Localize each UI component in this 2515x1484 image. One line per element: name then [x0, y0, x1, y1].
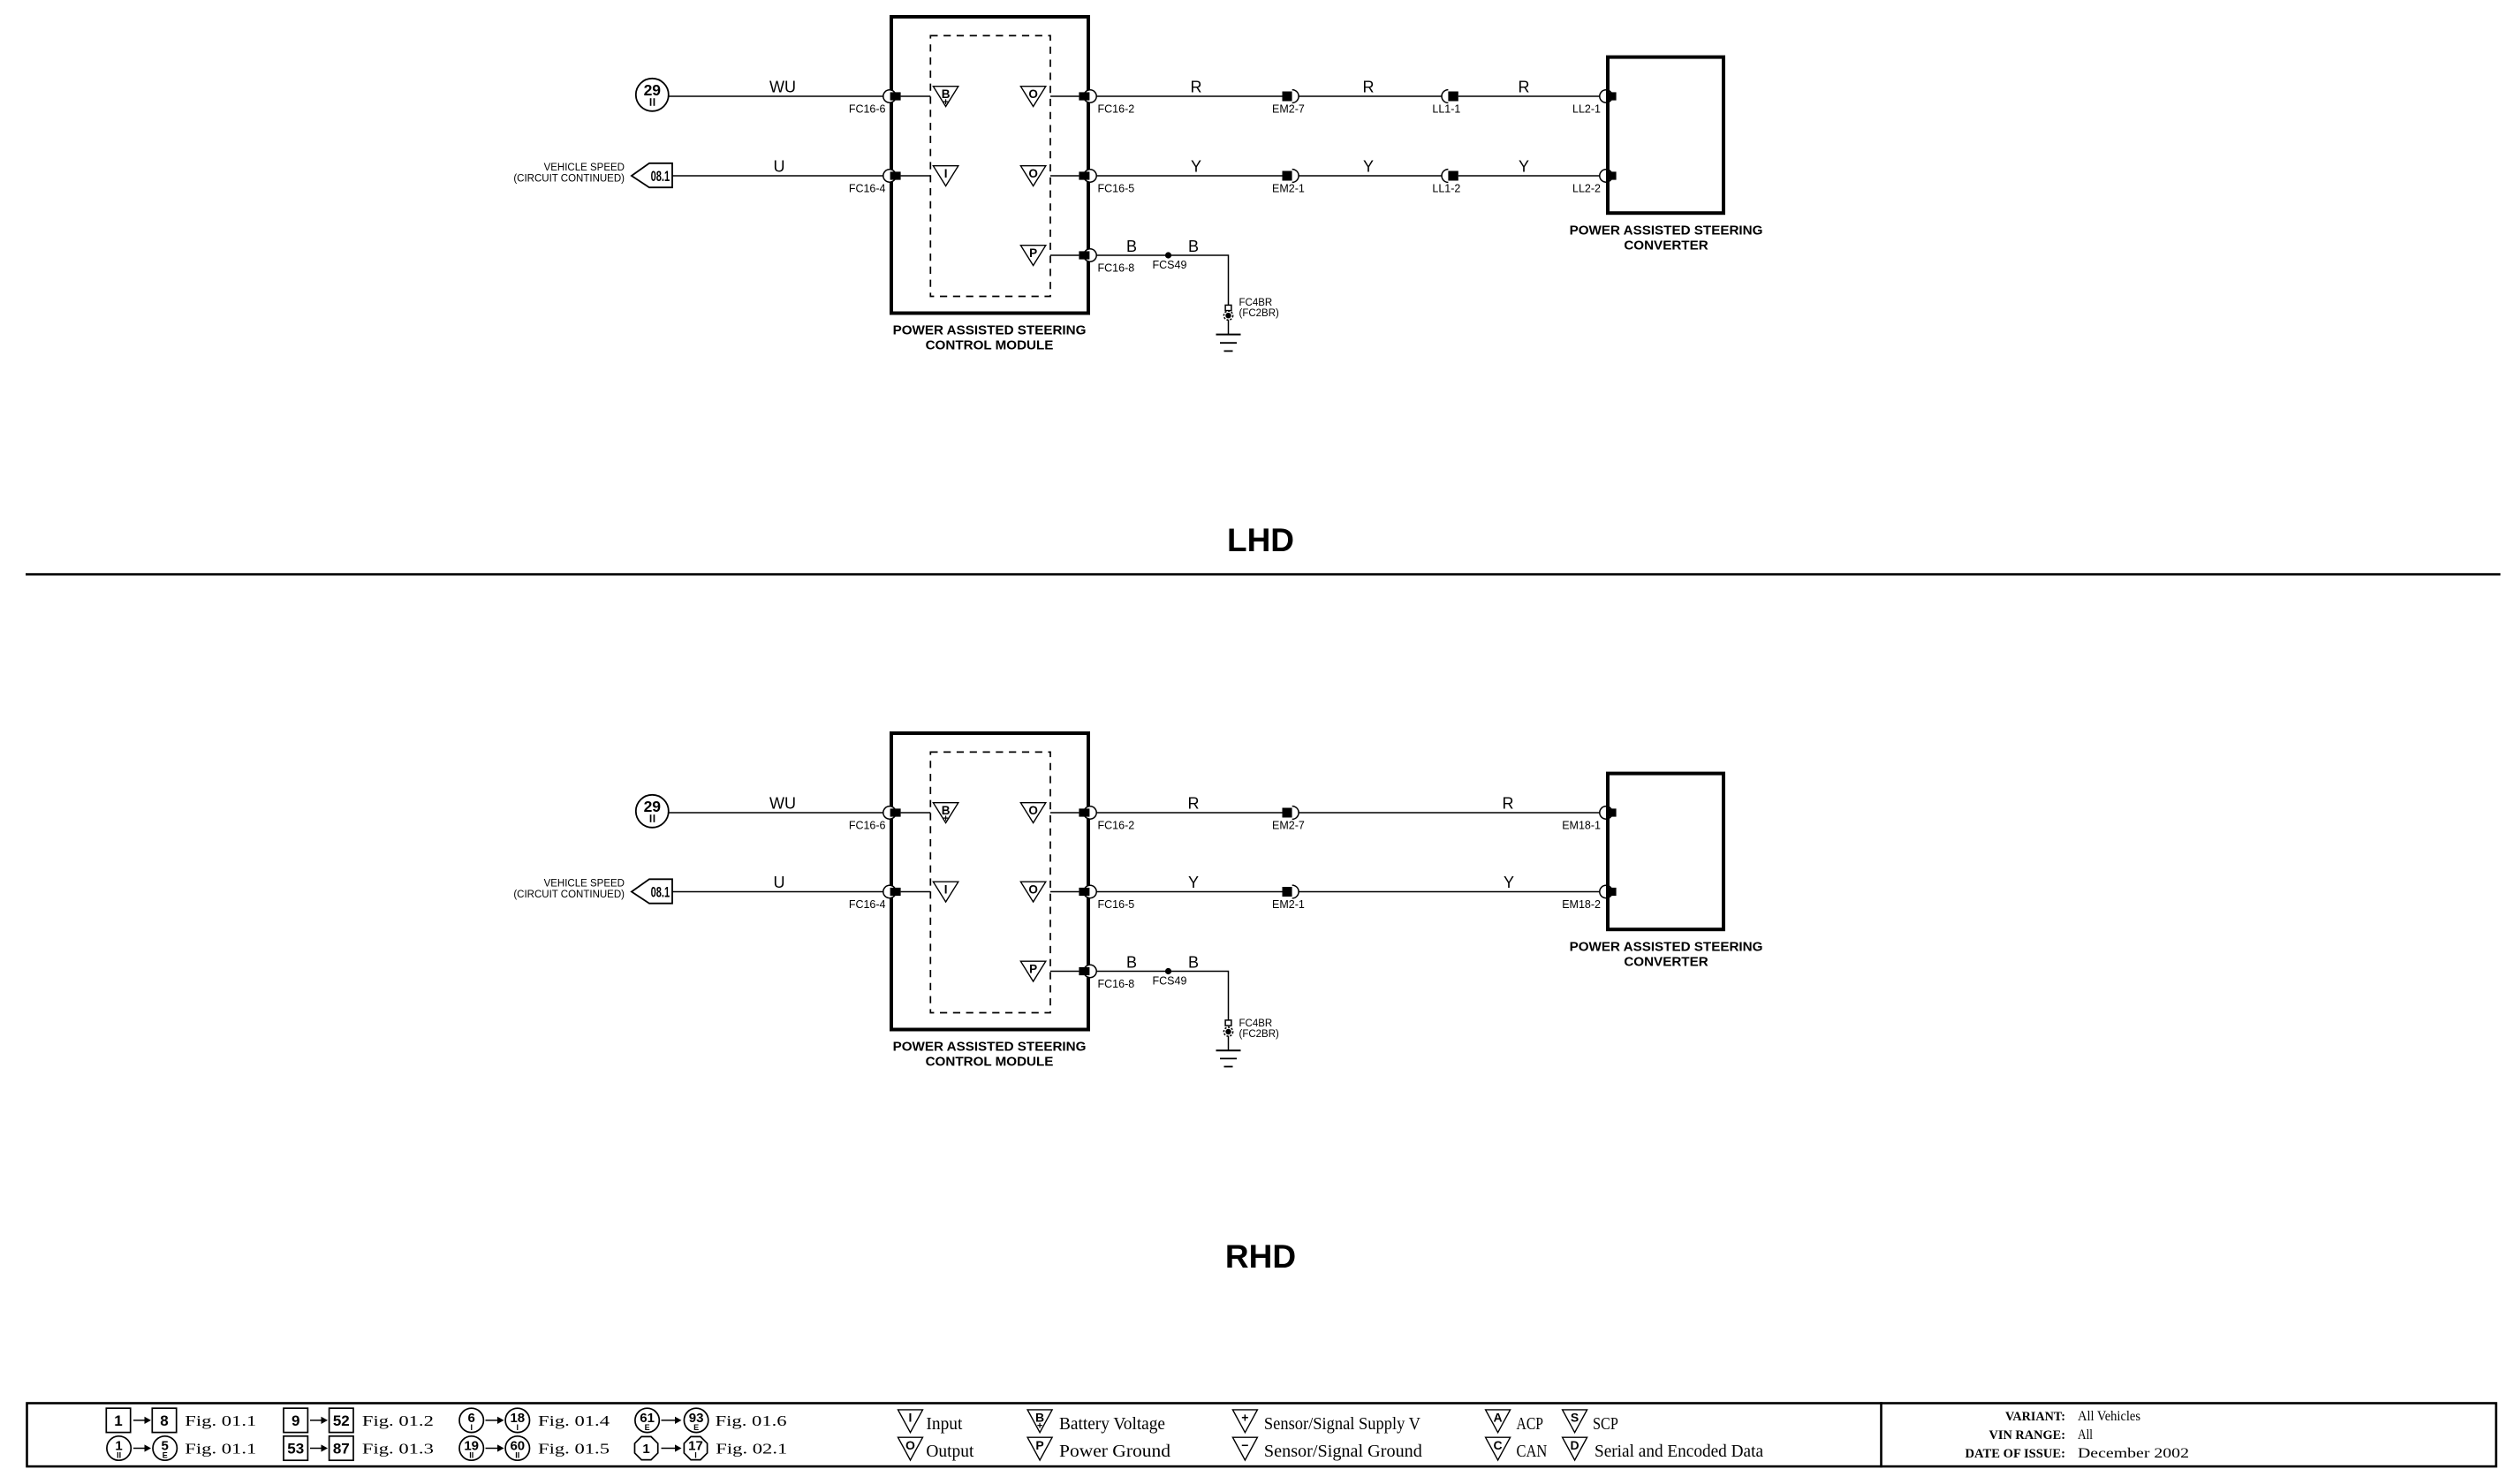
- symbol triangle legend I input: [898, 1410, 923, 1433]
- legend arrow 9to52: [310, 1417, 328, 1424]
- connector LL1-1 (LHD): [1442, 90, 1458, 103]
- label ground designation FC4BR (FC2BR) (RHD): [1239, 1018, 1280, 1040]
- svg-text:EM2-1: EM2-1: [1272, 898, 1305, 911]
- label pin label FC16-4: [849, 183, 886, 195]
- module POWER ASSISTED STEERING CONTROL MODULE box (LHD): [891, 17, 1088, 314]
- label wire colour Y seg3 (LHD): [1519, 158, 1529, 176]
- svg-text:Y: Y: [1191, 158, 1201, 176]
- svg-text:08.1: 08.1: [651, 884, 670, 901]
- label wire colour B seg2 (LHD): [1188, 238, 1199, 255]
- svg-text:Power Ground: Power Ground: [1059, 1442, 1170, 1461]
- symbol triangle B battery voltage (RHD): [933, 803, 958, 825]
- svg-text:VEHICLE SPEED: VEHICLE SPEED: [544, 163, 625, 173]
- label pin label FC16-5: [1098, 183, 1135, 195]
- label wire colour B seg1 (LHD): [1126, 238, 1137, 255]
- wire WU (RHD): [669, 812, 885, 814]
- legend figure label Fig. 01.1 row2: [185, 1441, 256, 1457]
- label ground designation FC4BR (FC2BR) (LHD): [1239, 298, 1280, 319]
- legend symbol text Input: [926, 1415, 963, 1434]
- svg-text:CONVERTER: CONVERTER: [1624, 955, 1708, 970]
- wire R segment 1 (RHD): [1096, 812, 1283, 814]
- wire R segment 1 (LHD): [1096, 95, 1283, 97]
- label splice label FCS49 (RHD): [1153, 975, 1187, 988]
- wire stub O symbol to FC16-5 (LHD): [1050, 175, 1079, 177]
- svg-text:−: −: [1241, 1438, 1248, 1452]
- svg-text:B: B: [1188, 954, 1199, 972]
- label wire colour B seg2 (RHD): [1188, 954, 1199, 972]
- svg-text:O: O: [1028, 804, 1038, 817]
- svg-text:U: U: [774, 874, 785, 891]
- module POWER ASSISTED STEERING CONVERTER box (RHD): [1608, 774, 1723, 930]
- label pin label FC16-6: [849, 820, 886, 832]
- pin FC16-5 (LHD): [1079, 170, 1096, 182]
- label wire colour R seg2 (LHD): [1363, 79, 1375, 96]
- label pin label FC16-8: [1098, 262, 1135, 275]
- wire R segment 2 (RHD): [1299, 812, 1602, 814]
- connector EM2-1 (RHD): [1283, 885, 1299, 898]
- legend figure label Fig. 01.5: [538, 1441, 610, 1457]
- label converter caption (LHD): [1570, 223, 1763, 254]
- wire stub FC16-6 to B symbol (LHD): [901, 95, 931, 97]
- svg-text:FC4BR: FC4BR: [1239, 298, 1273, 308]
- legend arrow 1to5: [133, 1444, 151, 1451]
- legend octagon 17/I: [684, 1436, 707, 1459]
- legend arrow 53to87: [310, 1444, 328, 1451]
- label pin label LL2-2: [1572, 183, 1601, 195]
- svg-text:Fig. 01.1: Fig. 01.1: [185, 1441, 256, 1457]
- legend arrow 6to18: [486, 1417, 504, 1424]
- legend circle 93/E: [684, 1408, 708, 1432]
- svg-text:8: 8: [160, 1412, 168, 1429]
- pin FC16-6 (LHD): [883, 90, 901, 102]
- wire stub O symbol to FC16-5 (RHD): [1050, 891, 1079, 893]
- ground FC4BR (LHD): [1216, 305, 1241, 351]
- svg-text:Output: Output: [926, 1442, 974, 1461]
- svg-text:Serial and Encoded Data: Serial and Encoded Data: [1595, 1442, 1763, 1461]
- symbol triangle P power ground (LHD): [1020, 246, 1045, 266]
- label pin label EM18-1: [1562, 820, 1601, 832]
- symbol triangle O output row1 (LHD): [1020, 87, 1045, 107]
- connector EM2-7 (RHD): [1283, 806, 1299, 820]
- label connector label LL1-1: [1432, 103, 1460, 116]
- label wire colour R seg1 (LHD): [1191, 79, 1202, 96]
- svg-text:R: R: [1503, 795, 1514, 813]
- symbol triangle legend C CAN: [1486, 1437, 1511, 1460]
- svg-text:FC16-6: FC16-6: [849, 103, 886, 116]
- svg-text:All: All: [2078, 1427, 2093, 1442]
- wire Y segment 2 (RHD): [1299, 891, 1602, 893]
- svg-text:VIN RANGE:: VIN RANGE:: [1989, 1428, 2066, 1442]
- svg-text:II: II: [515, 1451, 519, 1460]
- label converter caption (RHD): [1570, 940, 1763, 970]
- wire Y segment 1 (LHD): [1096, 175, 1283, 177]
- svg-text:POWER ASSISTED STEERING: POWER ASSISTED STEERING: [1570, 223, 1763, 238]
- legend figure label Fig. 01.4: [538, 1412, 610, 1429]
- legend symbol text Battery Voltage: [1059, 1415, 1165, 1434]
- legend circle 60/II: [505, 1436, 529, 1460]
- svg-text:53: 53: [287, 1441, 304, 1457]
- pin FC16-8 (LHD): [1079, 249, 1096, 261]
- symbol triangle O output row2 (RHD): [1020, 882, 1045, 902]
- svg-text:9: 9: [292, 1412, 299, 1429]
- svg-text:Y: Y: [1188, 874, 1199, 891]
- legend figure label Fig. 01.1 row1: [185, 1412, 256, 1429]
- legend symbol text Output: [926, 1442, 974, 1461]
- legend symbol text ACP: [1517, 1415, 1544, 1434]
- svg-text:Y: Y: [1519, 158, 1529, 176]
- module internal dashed box (RHD): [930, 752, 1050, 1012]
- legend symbol text SCP: [1593, 1415, 1618, 1434]
- svg-text:CAN: CAN: [1517, 1442, 1548, 1461]
- legend arrow 1to8: [133, 1417, 151, 1424]
- svg-text:EM2-1: EM2-1: [1272, 183, 1305, 195]
- svg-text:Fig. 01.6: Fig. 01.6: [716, 1412, 787, 1429]
- label connector label LL1-2: [1432, 183, 1460, 195]
- legend symbol text Sensor/Signal Supply V: [1264, 1415, 1420, 1434]
- symbol triangle B battery voltage (LHD): [933, 87, 958, 109]
- pin EM18-1 (RHD): [1600, 806, 1617, 819]
- svg-text:CONTROL MODULE: CONTROL MODULE: [926, 1055, 1054, 1070]
- module POWER ASSISTED STEERING CONTROL MODULE box (RHD): [891, 733, 1088, 1030]
- label connector label EM2-7: [1272, 103, 1305, 116]
- wire Y segment 2 (LHD): [1299, 175, 1442, 177]
- svg-text:Sensor/Signal Supply V: Sensor/Signal Supply V: [1264, 1415, 1420, 1434]
- wire U (LHD): [672, 175, 885, 177]
- label pin label LL2-1: [1572, 103, 1601, 116]
- pin FC16-8 (RHD): [1079, 965, 1096, 977]
- wire WU (LHD): [669, 95, 885, 97]
- svg-text:SCP: SCP: [1593, 1415, 1618, 1434]
- svg-text:(FC2BR): (FC2BR): [1239, 308, 1280, 319]
- symbol triangle I input (LHD): [933, 166, 958, 186]
- label splice label FCS49 (LHD): [1153, 259, 1187, 271]
- svg-text:Battery Voltage: Battery Voltage: [1059, 1415, 1165, 1434]
- svg-text:EM2-7: EM2-7: [1272, 103, 1305, 116]
- svg-text:Y: Y: [1504, 874, 1514, 891]
- legend figure label Fig. 01.6: [716, 1412, 787, 1429]
- legend circle 6/I: [459, 1408, 483, 1432]
- svg-text:(FC2BR): (FC2BR): [1239, 1029, 1280, 1040]
- wire R segment 2 (LHD): [1299, 95, 1442, 97]
- pin FC16-2 (RHD): [1079, 806, 1096, 819]
- svg-text:+: +: [943, 97, 948, 108]
- svg-text:RHD: RHD: [1225, 1238, 1296, 1275]
- svg-text:D: D: [1571, 1438, 1579, 1452]
- symbol triangle legend P power ground: [1027, 1437, 1052, 1460]
- svg-text:+: +: [1241, 1411, 1248, 1425]
- svg-text:Fig. 01.4: Fig. 01.4: [538, 1412, 610, 1429]
- off-page pointer 08.1 (RHD): [632, 879, 672, 903]
- label wire colour Y seg2 (RHD): [1504, 874, 1514, 891]
- wire stub O symbol to FC16-2 (RHD): [1050, 812, 1079, 814]
- wire Y segment 3 (LHD): [1458, 175, 1602, 177]
- wire stub P symbol to FC16-8 (LHD): [1050, 254, 1079, 256]
- connector EM2-7 (LHD): [1283, 90, 1299, 103]
- svg-text:FC4BR: FC4BR: [1239, 1018, 1273, 1029]
- label pin label FC16-6: [849, 103, 886, 116]
- svg-text:(CIRCUIT CONTINUED): (CIRCUIT CONTINUED): [513, 174, 625, 185]
- pin FC16-4 (RHD): [883, 885, 901, 897]
- svg-text:FC16-8: FC16-8: [1098, 978, 1135, 990]
- svg-text:All Vehicles: All Vehicles: [2078, 1409, 2140, 1424]
- svg-text:FC16-5: FC16-5: [1098, 183, 1135, 195]
- svg-text:FC16-8: FC16-8: [1098, 262, 1135, 275]
- svg-text:O: O: [1028, 167, 1038, 180]
- label pin label FC16-8: [1098, 978, 1135, 990]
- svg-text:WU: WU: [769, 79, 796, 96]
- power feed circle 29 (LHD): [636, 79, 669, 111]
- wire U (RHD): [672, 891, 885, 893]
- legend figure label Fig. 01.2: [362, 1412, 434, 1429]
- wire stub FC16-4 to I symbol (LHD): [901, 175, 931, 177]
- svg-text:Fig. 01.2: Fig. 01.2: [362, 1412, 434, 1429]
- label II under circle 29 (LHD): [650, 98, 655, 106]
- svg-text:FC16-4: FC16-4: [849, 183, 886, 195]
- label II under circle 29 (RHD): [650, 814, 655, 822]
- label diagram title LHD: [1227, 522, 1294, 558]
- svg-text:CONVERTER: CONVERTER: [1624, 238, 1708, 254]
- symbol triangle O output row1 (RHD): [1020, 803, 1045, 823]
- svg-text:FC16-6: FC16-6: [849, 820, 886, 832]
- wire R segment 3 (LHD): [1458, 95, 1602, 97]
- wire Y segment 1 (RHD): [1096, 891, 1283, 893]
- legend square 9: [284, 1408, 307, 1432]
- svg-text:WU: WU: [769, 795, 796, 813]
- legend square 52: [330, 1408, 353, 1432]
- legend frame: [27, 1404, 2496, 1467]
- svg-text:Fig. 01.1: Fig. 01.1: [185, 1412, 256, 1429]
- symbol triangle legend B battery voltage: [1027, 1410, 1052, 1433]
- svg-text:Fig. 01.5: Fig. 01.5: [538, 1441, 610, 1457]
- svg-text:1: 1: [114, 1412, 122, 1429]
- svg-text:VARIANT:: VARIANT:: [2005, 1410, 2065, 1424]
- legend arrow 61to93: [662, 1417, 682, 1424]
- pin LL2-2 (LHD): [1600, 170, 1617, 182]
- svg-text:B: B: [1126, 954, 1137, 972]
- symbol triangle legend S SCP: [1563, 1410, 1587, 1433]
- legend circle 61/E: [635, 1408, 659, 1432]
- svg-text:FC16-5: FC16-5: [1098, 898, 1135, 911]
- legend symbol text Serial and Encoded Data: [1595, 1442, 1763, 1461]
- svg-text:I: I: [694, 1451, 697, 1460]
- svg-text:I: I: [470, 1423, 473, 1432]
- legend circle 19/II: [459, 1436, 483, 1460]
- wire stub P symbol to FC16-8 (RHD): [1050, 971, 1079, 973]
- label pin label FC16-4: [849, 898, 886, 911]
- svg-text:B: B: [1188, 238, 1199, 255]
- wire B ground wire (LHD): [1096, 255, 1229, 305]
- label wire colour R seg3 (LHD): [1519, 79, 1530, 96]
- legend circle 1/II: [107, 1436, 131, 1460]
- svg-text:E: E: [163, 1451, 168, 1460]
- legend symbol text CAN: [1517, 1442, 1548, 1461]
- svg-text:87: 87: [333, 1441, 350, 1457]
- svg-text:LHD: LHD: [1227, 522, 1294, 558]
- svg-text:I: I: [944, 167, 948, 180]
- svg-text:R: R: [1363, 79, 1375, 96]
- svg-text:LL2-2: LL2-2: [1572, 183, 1601, 195]
- wire stub FC16-6 to B symbol (RHD): [901, 812, 931, 814]
- svg-text:(CIRCUIT CONTINUED): (CIRCUIT CONTINUED): [513, 890, 625, 900]
- label pin label FC16-5: [1098, 898, 1135, 911]
- svg-text:U: U: [774, 158, 785, 176]
- legend square 87: [330, 1436, 353, 1460]
- label wire colour WU (RHD): [769, 795, 796, 813]
- wire stub FC16-4 to I symbol (RHD): [901, 891, 931, 893]
- svg-text:POWER ASSISTED STEERING: POWER ASSISTED STEERING: [893, 1040, 1087, 1055]
- svg-text:FCS49: FCS49: [1153, 259, 1187, 271]
- svg-text:EM2-7: EM2-7: [1272, 820, 1305, 832]
- svg-text:O: O: [905, 1438, 915, 1452]
- legend symbol text Power Ground: [1059, 1442, 1170, 1461]
- legend figure label Fig. 01.3: [362, 1441, 434, 1457]
- svg-text:FCS49: FCS49: [1153, 975, 1187, 988]
- svg-text:08.1: 08.1: [651, 168, 670, 185]
- svg-text:C: C: [1494, 1438, 1503, 1452]
- label wire colour R seg1 (RHD): [1188, 795, 1200, 813]
- svg-text:Y: Y: [1363, 158, 1374, 176]
- svg-text:Input: Input: [926, 1415, 963, 1434]
- label VEHICLE SPEED (CIRCUIT CONTINUED) (RHD): [513, 879, 625, 901]
- symbol triangle legend - sensor ground: [1232, 1437, 1257, 1460]
- divider line between LHD and RHD: [26, 573, 2501, 576]
- legend figure label Fig. 02.1: [716, 1441, 787, 1457]
- legend variant info: [1966, 1409, 2190, 1461]
- pin EM18-2 (RHD): [1600, 885, 1617, 897]
- svg-text:29: 29: [644, 798, 662, 815]
- svg-text:+: +: [1037, 1421, 1042, 1432]
- legend symbol text Sensor/Signal Ground: [1264, 1442, 1422, 1461]
- label wire colour U (RHD): [774, 874, 785, 891]
- svg-text:E: E: [693, 1423, 699, 1432]
- svg-text:S: S: [1571, 1411, 1579, 1425]
- label wire colour WU (LHD): [769, 79, 796, 96]
- svg-text:R: R: [1191, 79, 1202, 96]
- svg-text:FC16-4: FC16-4: [849, 898, 886, 911]
- label pin label FC16-2: [1098, 103, 1135, 116]
- label VEHICLE SPEED (CIRCUIT CONTINUED) (LHD): [513, 163, 625, 185]
- connector EM2-1 (LHD): [1283, 170, 1299, 183]
- svg-text:LL1-1: LL1-1: [1432, 103, 1460, 116]
- ground FC4BR (RHD): [1216, 1020, 1241, 1067]
- svg-text:P: P: [1035, 1438, 1043, 1452]
- label wire colour B seg1 (RHD): [1126, 954, 1137, 972]
- module POWER ASSISTED STEERING CONVERTER box (LHD): [1608, 57, 1723, 214]
- label wire colour Y seg1 (LHD): [1191, 158, 1201, 176]
- svg-text:II: II: [117, 1451, 121, 1460]
- legend octagon 1: [634, 1436, 657, 1459]
- svg-text:O: O: [1028, 883, 1038, 897]
- legend arrow 1to17: [662, 1444, 682, 1451]
- legend circle 5/E: [153, 1436, 177, 1460]
- svg-text:1: 1: [642, 1442, 649, 1457]
- label wire colour U (LHD): [774, 158, 785, 176]
- svg-text:R: R: [1519, 79, 1530, 96]
- svg-text:+: +: [943, 814, 948, 824]
- wire stub O symbol to FC16-2 (LHD): [1050, 95, 1079, 97]
- svg-text:December 2002: December 2002: [2078, 1446, 2189, 1461]
- label module caption (LHD): [893, 323, 1087, 353]
- pin FC16-5 (RHD): [1079, 885, 1096, 897]
- module internal dashed box (LHD): [930, 35, 1050, 296]
- svg-text:O: O: [1028, 87, 1038, 101]
- wire B ground wire (RHD): [1096, 972, 1229, 1020]
- svg-text:DATE OF ISSUE:: DATE OF ISSUE:: [1966, 1447, 2066, 1461]
- symbol triangle legend O output: [898, 1437, 923, 1460]
- svg-text:II: II: [469, 1451, 473, 1460]
- svg-text:CONTROL MODULE: CONTROL MODULE: [926, 338, 1054, 353]
- svg-text:POWER ASSISTED STEERING: POWER ASSISTED STEERING: [1570, 940, 1763, 955]
- label pin label EM18-2: [1562, 898, 1601, 911]
- pin FC16-4 (LHD): [883, 170, 901, 182]
- symbol triangle I input (RHD): [933, 882, 958, 902]
- svg-text:POWER ASSISTED STEERING: POWER ASSISTED STEERING: [893, 323, 1087, 338]
- pin FC16-2 (LHD): [1079, 90, 1096, 102]
- svg-text:Fig. 02.1: Fig. 02.1: [716, 1441, 787, 1457]
- splice FCS49 (RHD): [1165, 968, 1171, 974]
- symbol triangle legend D serial data: [1563, 1437, 1587, 1460]
- svg-text:Sensor/Signal Ground: Sensor/Signal Ground: [1264, 1442, 1422, 1461]
- svg-text:R: R: [1188, 795, 1200, 813]
- svg-text:ACP: ACP: [1517, 1415, 1544, 1434]
- pin LL2-1 (LHD): [1600, 90, 1617, 102]
- svg-text:LL1-2: LL1-2: [1432, 183, 1460, 195]
- svg-text:VEHICLE SPEED: VEHICLE SPEED: [544, 879, 625, 890]
- svg-text:E: E: [645, 1423, 650, 1432]
- label module caption (RHD): [893, 1040, 1087, 1070]
- connector LL1-2 (LHD): [1442, 170, 1458, 183]
- symbol triangle O output row2 (LHD): [1020, 166, 1045, 186]
- svg-text:LL2-1: LL2-1: [1572, 103, 1601, 116]
- legend square 1: [106, 1408, 130, 1432]
- svg-text:FC16-2: FC16-2: [1098, 103, 1135, 116]
- svg-text:I: I: [517, 1423, 519, 1432]
- svg-text:52: 52: [333, 1412, 350, 1429]
- svg-text:I: I: [909, 1411, 913, 1425]
- label diagram title RHD: [1225, 1238, 1296, 1275]
- legend square 53: [284, 1436, 307, 1460]
- legend square 8: [152, 1408, 176, 1432]
- symbol triangle P power ground (RHD): [1020, 961, 1045, 981]
- label wire colour Y seg1 (RHD): [1188, 874, 1199, 891]
- label pin label FC16-2: [1098, 820, 1135, 832]
- label connector label EM2-1: [1272, 898, 1305, 911]
- svg-text:P: P: [1029, 963, 1037, 976]
- legend divider line: [1880, 1402, 1882, 1467]
- symbol triangle legend + sensor supply: [1232, 1410, 1257, 1433]
- off-page pointer 08.1 (LHD): [632, 163, 672, 187]
- label wire colour Y seg2 (LHD): [1363, 158, 1374, 176]
- svg-text:29: 29: [644, 81, 662, 99]
- svg-text:B: B: [1126, 238, 1137, 255]
- power feed circle 29 (RHD): [636, 795, 669, 828]
- splice FCS49 (LHD): [1165, 252, 1171, 258]
- svg-text:Fig. 01.3: Fig. 01.3: [362, 1441, 434, 1457]
- legend arrow 19to60: [486, 1444, 504, 1451]
- svg-text:I: I: [944, 883, 948, 897]
- label wire colour R seg2 (RHD): [1503, 795, 1514, 813]
- pin FC16-6 (RHD): [883, 806, 901, 819]
- svg-text:A: A: [1494, 1411, 1503, 1425]
- label connector label EM2-7: [1272, 820, 1305, 832]
- symbol triangle legend A ACP: [1486, 1410, 1511, 1433]
- svg-text:EM18-1: EM18-1: [1562, 820, 1601, 832]
- svg-text:FC16-2: FC16-2: [1098, 820, 1135, 832]
- label connector label EM2-1: [1272, 183, 1305, 195]
- svg-text:P: P: [1029, 246, 1037, 260]
- legend circle 18/I: [505, 1408, 529, 1432]
- svg-text:EM18-2: EM18-2: [1562, 898, 1601, 911]
